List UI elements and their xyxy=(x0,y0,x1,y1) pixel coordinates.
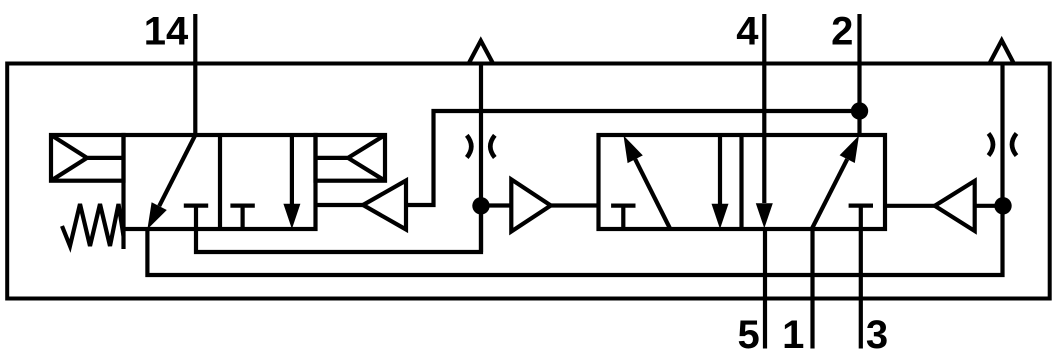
junction dot right pilot xyxy=(994,197,1011,214)
solenoid coil 2 triangle xyxy=(316,135,386,181)
pilot line below valve (port at x=196) xyxy=(196,206,481,252)
enclosure border xyxy=(7,64,1050,299)
solenoid coil box 2 xyxy=(316,135,386,181)
main valve diagonal arrow 1->4 (left chamber) xyxy=(635,159,670,228)
exhaust caret right xyxy=(990,40,1013,62)
pilot valve blocked port T (right chamber) xyxy=(230,206,254,229)
main valve V2 body xyxy=(599,135,886,229)
main valve blocked port T (left chamber) xyxy=(611,206,635,229)
port 2 line xyxy=(857,14,861,135)
right pilot triangle xyxy=(935,181,975,231)
pilot valve flow arrow 14 (diagonal, arrowhead lower-left) xyxy=(159,135,195,206)
svg-text:14: 14 xyxy=(144,9,189,53)
solenoid coil 1 triangle xyxy=(51,135,124,181)
pilot exhaust line right (x=1002.5) xyxy=(1000,64,1004,206)
solenoid coil box 1 xyxy=(51,135,124,181)
port 3 line (stem through valve bottom) xyxy=(859,206,863,349)
return spring xyxy=(62,204,124,246)
pilot valve V1 center divider xyxy=(218,135,222,229)
port 4 line and arrow 4->5 (right chamber) xyxy=(762,14,766,203)
restrictor arcs right xyxy=(989,133,1017,155)
svg-text:5: 5 xyxy=(737,313,759,357)
pilot exhaust line left (x=481) xyxy=(479,64,483,253)
main valve down arrow 2->3 (left chamber) xyxy=(718,135,722,204)
svg-text:2: 2 xyxy=(831,9,853,53)
pilot valve blocked port T (left chamber) xyxy=(184,206,208,229)
amplifier triangle feeding main valve left pilot xyxy=(481,203,511,207)
pilot valve down arrow (right chamber) xyxy=(290,135,294,204)
pilot supply line below valve (port at x=147) xyxy=(147,206,1002,275)
main valve V2 center divider xyxy=(739,135,743,229)
junction dot left pilot xyxy=(472,197,489,214)
junction dot at 2-line xyxy=(851,102,868,119)
pilot port 14 line xyxy=(193,14,197,135)
port 5 line xyxy=(763,229,767,349)
pilot valve V1 left edge extension xyxy=(121,229,125,249)
pilot triangle at pilot valve right side xyxy=(316,203,364,207)
main valve diagonal arrow 1->2 (right chamber) xyxy=(812,159,847,228)
svg-text:1: 1 xyxy=(782,313,804,357)
restrictor arcs left xyxy=(467,135,495,157)
svg-text:4: 4 xyxy=(736,9,759,53)
pilot valve V1 body xyxy=(124,135,316,229)
svg-text:3: 3 xyxy=(866,313,888,357)
port 1 line xyxy=(810,229,814,349)
exhaust caret left xyxy=(469,41,492,63)
main valve right pilot line xyxy=(885,204,935,208)
main valve blocked port T (right chamber, port 3) xyxy=(849,204,873,208)
pilot line from triangle up and across xyxy=(406,111,860,205)
